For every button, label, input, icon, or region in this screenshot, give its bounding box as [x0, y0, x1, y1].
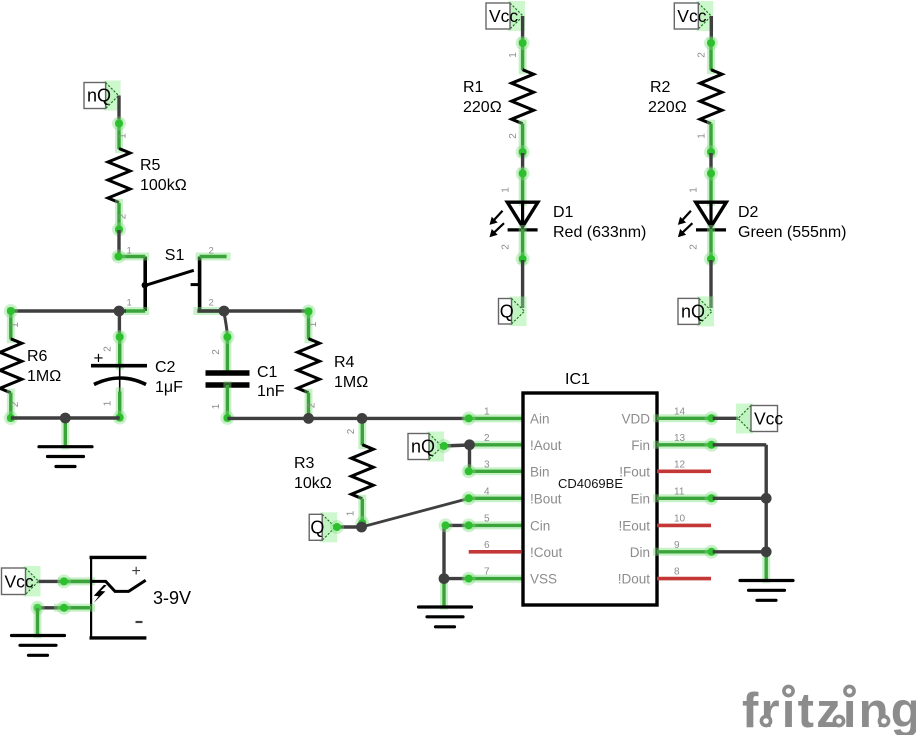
resistor R6 [0, 339, 22, 393]
svg-text:Green (555nm): Green (555nm) [738, 224, 847, 241]
svg-text:D1: D1 [553, 204, 574, 221]
net label Vcc R2 [674, 1, 713, 31]
pin stub R2 pin 1 [707, 124, 715, 153]
pin stub R4 pin 1 [305, 311, 313, 339]
pin stub R3 pin 1 [358, 499, 366, 525]
svg-text:R4: R4 [334, 354, 355, 371]
svg-text:Vcc: Vcc [677, 6, 706, 26]
ground G2 (battery) [12, 636, 65, 656]
svg-text:1: 1 [501, 187, 512, 193]
net label Vcc bat [2, 566, 41, 597]
pin stub R3 pin 2 [358, 418, 366, 445]
pin stub C1 pin 2 [223, 335, 231, 370]
wire Vcc to R1 [521, 16, 524, 45]
switch S1 [142, 257, 200, 312]
svg-text:Ein: Ein [630, 491, 650, 506]
pin stub IC1 pin3 Bin [468, 467, 523, 475]
ground G1 (R6/C2) [39, 447, 92, 467]
pin stub IC1 pin10 !Eout (red) [657, 524, 711, 528]
svg-text:!Fout: !Fout [619, 464, 650, 479]
pin stub IC1 pin5 Cin [468, 521, 523, 529]
svg-text:2: 2 [689, 244, 700, 250]
pin stub IC1 pin2 !Aout [470, 441, 524, 449]
resistor R2 [700, 70, 722, 124]
svg-text:Q: Q [310, 518, 324, 538]
wire C1/R4/R3 to IC pin 1 Ain [227, 417, 470, 420]
svg-text:2: 2 [307, 402, 318, 408]
svg-text:VDD: VDD [621, 411, 650, 426]
svg-text:2: 2 [209, 298, 214, 309]
svg-text:8: 8 [674, 567, 680, 578]
svg-text:4: 4 [484, 486, 490, 497]
resistor R4 [298, 339, 320, 393]
svg-text:1nF: 1nF [257, 383, 285, 400]
wire R5 to S1 [117, 230, 120, 257]
wire R2 to D2 [709, 153, 712, 173]
net label Vcc R1 [486, 1, 525, 31]
svg-text:IC1: IC1 [565, 371, 590, 388]
wire Ein to vertical [713, 497, 767, 500]
net label nQ mid [408, 432, 444, 462]
svg-text:3: 3 [484, 459, 490, 470]
svg-text:2: 2 [484, 433, 490, 444]
svg-text:1: 1 [508, 52, 519, 58]
wire VDD to Vcc label [713, 417, 738, 420]
wire Q label to junction [335, 525, 362, 528]
LED D1 [490, 202, 538, 237]
svg-text:3-9V: 3-9V [153, 588, 191, 608]
svg-text:100kΩ: 100kΩ [140, 177, 187, 194]
svg-text:2: 2 [211, 349, 222, 355]
pin stub IC1 pin4 !Bout [468, 494, 523, 502]
pin stub IC1 pin9 Din [657, 548, 713, 556]
fritzing watermark [742, 684, 916, 735]
svg-text:1MΩ: 1MΩ [27, 368, 61, 385]
svg-text:R1: R1 [463, 79, 484, 96]
svg-text:R6: R6 [27, 348, 48, 365]
svg-text:!Dout: !Dout [618, 572, 651, 587]
wire Vcc label to battery + [39, 580, 92, 583]
pin stub IC1 pin14 VDD [657, 414, 713, 422]
wire junction to ground [61, 418, 69, 446]
svg-text:!Aout: !Aout [530, 438, 562, 453]
wire nQ label to junction [442, 445, 470, 446]
svg-text:1: 1 [127, 298, 132, 309]
wire Cin corner [444, 524, 469, 527]
svg-text:2: 2 [346, 428, 357, 434]
pin stub D1 pin 2 [519, 229, 527, 260]
pin stub R6 pin 2 [7, 393, 15, 418]
svg-text:6: 6 [484, 540, 490, 551]
svg-text:10: 10 [674, 513, 686, 524]
wire down to ground G2 [34, 608, 42, 635]
svg-text:+: + [132, 563, 141, 580]
wire junction down to Bin row [468, 445, 471, 472]
svg-text:2: 2 [697, 52, 708, 58]
pin stub S1 pin2 bottom [197, 307, 221, 315]
wire R6 bottom to C2 bottom [11, 416, 120, 419]
svg-text:Din: Din [630, 545, 650, 560]
svg-text:1: 1 [211, 403, 222, 409]
svg-text:S1: S1 [165, 247, 185, 264]
battery BAT1 3-9V [90, 556, 147, 639]
svg-text:2: 2 [501, 244, 512, 250]
pin stub R5 pin 1 [115, 123, 123, 149]
wire VSS row [444, 577, 469, 580]
svg-text:nQ: nQ [87, 86, 111, 106]
pin stub R1 pin 2 [519, 124, 527, 153]
wire Din junction to ground G4 [762, 552, 770, 580]
svg-text:1: 1 [308, 321, 319, 327]
svg-text:2: 2 [508, 133, 519, 139]
svg-text:2: 2 [103, 346, 114, 352]
svg-text:VSS: VSS [530, 572, 557, 587]
net label Q D1 [499, 297, 527, 327]
pin stub IC1 pin11 Ein [657, 494, 713, 502]
ground G3 (VSS) [419, 607, 472, 627]
pin stub R4 pin 2 [305, 393, 313, 419]
svg-text:Q: Q [500, 301, 514, 321]
resistor R5 [108, 149, 130, 203]
pin stub D1 pin 1 [519, 172, 527, 202]
svg-text:1: 1 [10, 322, 21, 328]
svg-text:1: 1 [127, 246, 132, 257]
wire junction to ground G3 [440, 579, 448, 606]
wire Vcc to R2 [710, 16, 713, 45]
svg-text:R2: R2 [650, 79, 671, 96]
ground G4 (right) [740, 581, 793, 601]
svg-text:+: + [94, 349, 104, 368]
wire Fin right + down [713, 443, 767, 446]
svg-text:R5: R5 [140, 157, 161, 174]
svg-text:D2: D2 [738, 204, 759, 221]
pin stub C2 pin 1 [116, 392, 124, 419]
svg-text:1: 1 [689, 187, 700, 193]
pin stub R2 pin 2 [707, 42, 715, 70]
svg-text:Vcc: Vcc [489, 6, 518, 26]
svg-text:220Ω: 220Ω [463, 99, 502, 116]
svg-text:Red (633nm): Red (633nm) [553, 224, 646, 241]
wire R6 top to S1 left junction [11, 309, 126, 312]
wire junction to C2 pin2 [118, 311, 121, 338]
pin stub IC1 pin1 Ain [468, 414, 523, 422]
net label nQ D2 [678, 296, 714, 326]
svg-text:5: 5 [484, 513, 490, 524]
svg-text:Fin: Fin [631, 438, 650, 453]
wire D1 to Q label [521, 260, 524, 308]
svg-text:7: 7 [484, 567, 490, 578]
pin stub D2 pin 2 [707, 229, 715, 260]
capacitor C1 [206, 373, 250, 385]
svg-text:!Bout: !Bout [530, 491, 562, 506]
svg-text:1: 1 [103, 400, 114, 406]
wire diagonal Q junction to IC pin4 [362, 498, 470, 527]
pin stub S1 pin1 top [117, 253, 145, 261]
svg-text:C2: C2 [155, 359, 176, 376]
svg-text:CD4069BE: CD4069BE [558, 476, 623, 491]
pin stub D2 pin 1 [707, 172, 715, 202]
pin stub R6 pin 1 [7, 311, 15, 339]
svg-text:C1: C1 [257, 364, 278, 381]
net label Vcc IC [736, 404, 783, 434]
pin stub S1 pin1 bottom [125, 307, 146, 315]
svg-text:Cin: Cin [530, 518, 550, 533]
svg-text:!Cout: !Cout [530, 545, 563, 560]
svg-text:Bin: Bin [530, 464, 550, 479]
pin stub C2 pin 2 [116, 336, 124, 366]
wire D2 to nQ label [709, 260, 712, 308]
LED D2 [678, 202, 726, 237]
wire nQ to R5 pin1 [117, 96, 120, 127]
pin stub IC1 pin6 !Cout (unconnected, red) [469, 550, 521, 554]
resistor R1 [512, 70, 534, 124]
svg-text:2: 2 [118, 213, 129, 219]
svg-text:220Ω: 220Ω [648, 99, 687, 116]
svg-text:Vcc: Vcc [5, 571, 34, 591]
svg-text:1μF: 1μF [155, 379, 183, 396]
pin stub R5 pin 2 [115, 203, 123, 230]
pin stub IC1 pin12 !Fout (red) [657, 469, 711, 473]
svg-text:nQ: nQ [681, 302, 705, 322]
svg-text:fritzing: fritzing [742, 684, 916, 735]
resistor R3 [351, 445, 373, 499]
svg-text:R3: R3 [294, 455, 315, 472]
junction dots layer [114, 306, 125, 317]
svg-text:nQ: nQ [411, 437, 435, 457]
pin stub C1 pin 1 [223, 385, 231, 418]
svg-text:2: 2 [10, 401, 21, 407]
svg-text:2: 2 [209, 246, 214, 257]
capacitor C2 [91, 366, 147, 392]
pin stub S1 pin2 top [200, 253, 227, 261]
wire junction to C1 (curved) [224, 312, 227, 337]
wire Din to vertical [713, 550, 767, 553]
svg-text:1: 1 [697, 133, 708, 139]
svg-text:10kΩ: 10kΩ [294, 475, 332, 492]
svg-text:1: 1 [118, 133, 129, 139]
svg-text:1MΩ: 1MΩ [334, 374, 368, 391]
wire S1 right to R4 top [197, 309, 308, 312]
svg-text:!Eout: !Eout [618, 518, 650, 533]
pin stub R1 pin 1 [519, 42, 527, 70]
pin stub IC1 pin13 Fin [657, 441, 713, 449]
svg-text:1: 1 [346, 510, 357, 516]
svg-text:12: 12 [674, 459, 686, 470]
minus sign battery [136, 621, 143, 623]
pin stub IC1 pin7 VSS [468, 575, 523, 583]
pin stub IC1 pin8 !Dout (red) [657, 577, 711, 581]
net label nQ top [84, 81, 121, 111]
svg-text:Ain: Ain [530, 411, 550, 426]
op IC1 CD4069BE body [523, 393, 657, 605]
net label Q mid [309, 512, 337, 542]
wire battery minus to ground corner [37, 606, 91, 609]
svg-text:1: 1 [484, 406, 490, 417]
svg-text:Vcc: Vcc [754, 409, 783, 429]
wire R1 to D1 [521, 153, 524, 173]
